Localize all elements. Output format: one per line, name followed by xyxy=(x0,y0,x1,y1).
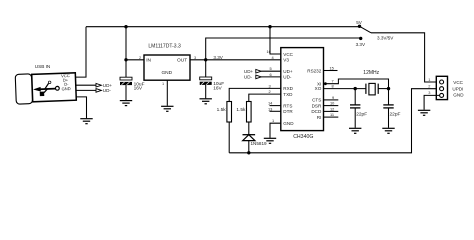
svg-text:UD+: UD+ xyxy=(283,69,293,74)
wire crystal right xyxy=(378,88,388,90)
svg-text:1: 1 xyxy=(162,81,164,86)
wire USB D+ xyxy=(76,84,96,86)
svg-text:2: 2 xyxy=(139,55,141,60)
svg-text:13: 13 xyxy=(268,106,272,111)
svg-text:GND: GND xyxy=(283,121,294,126)
svg-text:3.3V: 3.3V xyxy=(213,55,223,60)
svg-text:15: 15 xyxy=(330,66,334,71)
pin stub RI 11 xyxy=(324,116,339,118)
svg-text:3: 3 xyxy=(269,83,271,88)
svg-text:UD-: UD- xyxy=(244,75,253,80)
junction XI pin xyxy=(324,82,327,85)
wire USB GND xyxy=(76,97,87,118)
IC U1 CH340G xyxy=(267,48,336,140)
junction crystal left / C3 xyxy=(354,87,357,90)
wire CH340 VCC riser xyxy=(270,27,281,54)
svg-text:5: 5 xyxy=(270,66,272,71)
svg-text:UD-: UD- xyxy=(103,88,112,93)
capacitor C3 22pF xyxy=(350,89,367,128)
svg-text:3: 3 xyxy=(428,90,430,95)
svg-text:RTS: RTS xyxy=(283,103,292,108)
wire USB VCC riser xyxy=(76,27,86,77)
svg-text:12: 12 xyxy=(330,107,334,112)
svg-text:GND: GND xyxy=(61,86,70,91)
svg-text:3.3V: 3.3V xyxy=(356,42,366,47)
capacitor C2 10uF 16V xyxy=(200,60,225,99)
wire RXD to R1 xyxy=(229,88,281,101)
svg-text:1.5k: 1.5k xyxy=(217,107,227,113)
svg-text:USB IN: USB IN xyxy=(35,64,51,69)
ground C4 xyxy=(382,128,394,133)
switch SW1 5V/3.3V select xyxy=(356,20,371,47)
svg-text:V3: V3 xyxy=(283,58,289,63)
capacitor C4 22pF xyxy=(383,89,400,128)
wire 5V top rail xyxy=(86,26,360,28)
wire switch output to connector pin1 xyxy=(371,33,440,82)
svg-text:OUT: OUT xyxy=(177,57,187,63)
wire R2 bottom to diode xyxy=(248,122,250,135)
wire USB D- xyxy=(76,89,96,91)
svg-text:TXD: TXD xyxy=(283,92,293,97)
pin stub DTR 13 xyxy=(270,110,281,112)
svg-text:VCC: VCC xyxy=(283,52,293,57)
svg-text:RI: RI xyxy=(317,115,322,120)
svg-text:RS232: RS232 xyxy=(307,68,321,73)
wire UD+ to pin 5 xyxy=(261,70,281,72)
USB pin names xyxy=(61,73,71,91)
ground regulator xyxy=(161,106,173,111)
junction crystal right / C4 xyxy=(387,87,390,90)
svg-text:LM1117DT-3.3: LM1117DT-3.3 xyxy=(148,44,181,50)
ground CH340 xyxy=(264,138,276,143)
svg-text:DCD: DCD xyxy=(311,109,322,114)
connector CN1 USB IN xyxy=(15,64,76,104)
svg-text:16V: 16V xyxy=(213,85,222,91)
svg-text:UD-: UD- xyxy=(283,75,292,80)
junction top rail to regulator input xyxy=(124,25,127,28)
wire XI to crystal right xyxy=(324,79,389,89)
wire R1 bottom to rail xyxy=(228,122,230,153)
wire bottom rail to connector pin2 xyxy=(229,89,439,153)
wire regulator GND stem xyxy=(166,80,168,106)
svg-text:16V: 16V xyxy=(134,85,143,91)
wire XO to crystal left xyxy=(324,88,366,90)
svg-text:RXD: RXD xyxy=(283,86,293,91)
wire 3.3V riser to switch xyxy=(206,38,361,60)
svg-text:1N5819: 1N5819 xyxy=(251,141,268,146)
svg-text:XO: XO xyxy=(315,86,322,91)
svg-text:3: 3 xyxy=(194,55,196,60)
svg-text:1: 1 xyxy=(428,77,430,82)
capacitor C1 10uF 16V xyxy=(120,60,145,100)
pin stub CTS 9 xyxy=(324,99,339,101)
svg-text:6: 6 xyxy=(270,72,272,77)
svg-text:GND: GND xyxy=(161,70,172,76)
junction 3.3V / C2 / switch riser xyxy=(204,58,207,61)
resistor R2 1.5k xyxy=(247,102,252,123)
ground C3 xyxy=(349,128,361,133)
junction regulator IN / C1 xyxy=(124,58,127,61)
wire UD- to pin 6 xyxy=(261,76,281,78)
connector X1 output header xyxy=(428,76,464,99)
svg-text:1.5k: 1.5k xyxy=(236,107,246,113)
net label UD+ (USB side) xyxy=(96,83,101,87)
svg-text:DSR: DSR xyxy=(312,103,322,108)
svg-text:CTS: CTS xyxy=(312,98,321,103)
svg-text:VCC: VCC xyxy=(453,80,463,85)
pin stub DCD 12 xyxy=(324,110,339,112)
resistor R1 1.5k xyxy=(227,102,232,123)
svg-text:2: 2 xyxy=(428,84,430,89)
diode D1 1N5819 xyxy=(243,135,268,147)
crystal Q1 12MHz xyxy=(363,70,379,95)
svg-text:CH340G: CH340G xyxy=(293,134,313,140)
svg-text:5V: 5V xyxy=(356,20,363,25)
pin stub RTS 14 xyxy=(270,105,281,107)
svg-text:IN: IN xyxy=(146,57,151,63)
USB trident icon xyxy=(34,81,59,96)
ground C2 xyxy=(200,99,212,104)
svg-text:9: 9 xyxy=(332,95,334,100)
pin stub RS232 15 xyxy=(324,70,338,72)
wire CH340 GND xyxy=(270,123,281,138)
svg-text:1: 1 xyxy=(272,118,274,123)
pin stub DSR 10 xyxy=(324,105,339,107)
ground USB xyxy=(80,119,92,124)
junction top rail to CH340 VCC xyxy=(268,25,271,28)
svg-text:UPDI: UPDI xyxy=(452,86,463,91)
svg-text:8: 8 xyxy=(332,84,334,89)
wire diode to rail xyxy=(248,141,250,153)
wire TXD to R2 xyxy=(249,94,281,101)
wire connector pin3 to ground xyxy=(424,95,440,109)
svg-text:DTR: DTR xyxy=(283,109,293,114)
svg-text:GND: GND xyxy=(453,93,464,98)
svg-text:22pF: 22pF xyxy=(390,111,401,117)
svg-text:3.3V/5V: 3.3V/5V xyxy=(377,35,394,40)
svg-text:16: 16 xyxy=(267,49,271,54)
junction diode / bottom rail xyxy=(247,151,250,154)
svg-text:UD+: UD+ xyxy=(244,69,254,74)
net label UD- (USB side) xyxy=(96,89,101,93)
wire regulator IN riser xyxy=(126,27,144,60)
regulator U2 LM1117DT-3.3 xyxy=(139,44,196,86)
svg-text:2: 2 xyxy=(269,89,271,94)
svg-text:22pF: 22pF xyxy=(356,111,367,117)
svg-text:12MHz: 12MHz xyxy=(363,70,379,76)
wire 3.3V output to CH340 V3 xyxy=(190,59,281,61)
ground connector xyxy=(418,110,430,115)
svg-text:11: 11 xyxy=(330,112,334,117)
ground C1 xyxy=(120,101,132,106)
